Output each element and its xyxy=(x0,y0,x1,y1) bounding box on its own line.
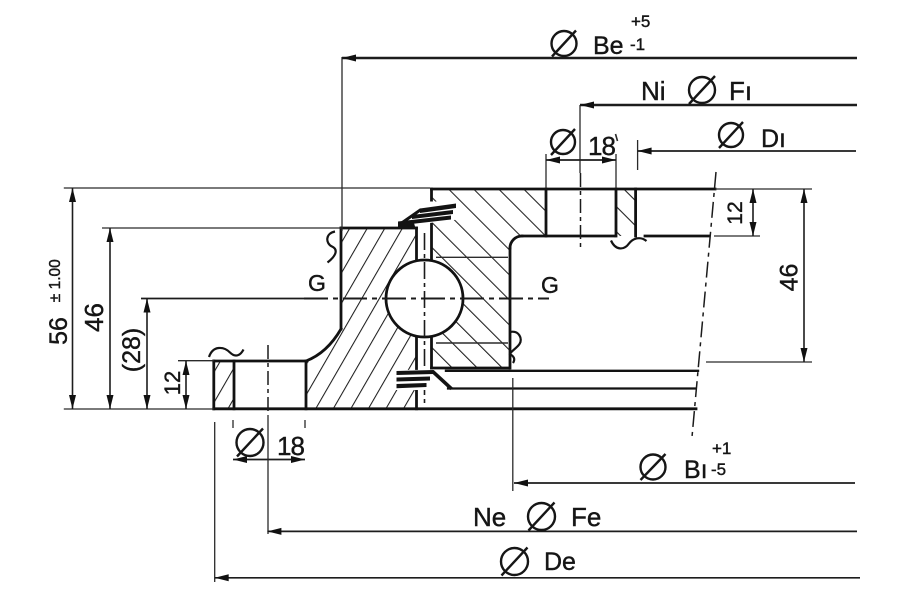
svg-text:Fe: Fe xyxy=(571,502,601,532)
break squiggle inner ring bottom xyxy=(510,332,521,363)
flange bolt hole centerline xyxy=(267,345,269,415)
raceway shoulder line upper xyxy=(436,256,508,258)
dimension 46 left xyxy=(79,228,341,409)
svg-text:-5: -5 xyxy=(711,460,726,479)
break squiggle flange xyxy=(209,348,244,357)
svg-text:18: 18 xyxy=(277,431,304,461)
break squiggle outer ring top xyxy=(327,232,335,263)
dimension diameter Di xyxy=(638,122,856,170)
svg-text:± 1.00: ± 1.00 xyxy=(47,259,64,302)
variant separator slant centerline xyxy=(692,172,716,437)
dimension 12 right xyxy=(714,189,812,236)
svg-text:12: 12 xyxy=(160,371,185,395)
svg-text:Be: Be xyxy=(593,32,624,60)
dimension diameter De xyxy=(215,422,860,582)
dimension diameter 18 upper xyxy=(546,129,618,188)
dimension 56 with tolerance xyxy=(45,188,430,409)
break squiggle gear band xyxy=(611,238,647,248)
ball vertical centerline xyxy=(424,233,426,406)
outer ring section hatching xyxy=(214,228,463,409)
svg-text:+5: +5 xyxy=(631,12,650,31)
raceway shoulder line lower xyxy=(436,342,508,344)
outer ring outline xyxy=(214,228,696,409)
dimension 46 right xyxy=(706,189,812,362)
svg-text:+1: +1 xyxy=(712,439,731,458)
svg-text:G: G xyxy=(541,272,559,298)
svg-text:12: 12 xyxy=(724,201,747,224)
svg-text:Ni: Ni xyxy=(641,76,666,106)
svg-text:46: 46 xyxy=(776,264,804,292)
svg-text:56: 56 xyxy=(45,317,73,345)
gear rim lower line xyxy=(448,387,695,389)
dimension diameter Bi with tolerance xyxy=(513,378,855,491)
svg-text:(28): (28) xyxy=(118,328,146,372)
centerline G-G xyxy=(141,298,304,300)
inner ring outline xyxy=(432,189,716,368)
svg-text:G: G xyxy=(308,270,326,296)
svg-text:Dı: Dı xyxy=(761,125,786,153)
inner ring section hatching xyxy=(386,189,636,368)
dimension 12 left xyxy=(160,361,214,409)
dimension diameter Be with tolerance xyxy=(342,12,857,231)
upper bolt hole centerline xyxy=(580,173,582,250)
ball xyxy=(386,260,463,337)
svg-text:Bı: Bı xyxy=(684,456,708,484)
dimension diameter 18 lower xyxy=(233,420,305,463)
dimension (28) xyxy=(118,299,151,410)
top seal xyxy=(398,202,458,229)
svg-text:Fı: Fı xyxy=(729,76,752,106)
gear rim upper line xyxy=(446,370,698,372)
dimension Ni diameter Fi xyxy=(580,76,857,173)
bottom seal xyxy=(394,370,452,390)
dimension Ne diameter Fe xyxy=(267,415,857,535)
svg-text:Ne: Ne xyxy=(473,502,506,532)
svg-text:46: 46 xyxy=(79,303,109,332)
svg-text:18: 18 xyxy=(588,131,615,161)
svg-text:De: De xyxy=(544,548,576,576)
svg-text:-1: -1 xyxy=(630,35,645,54)
